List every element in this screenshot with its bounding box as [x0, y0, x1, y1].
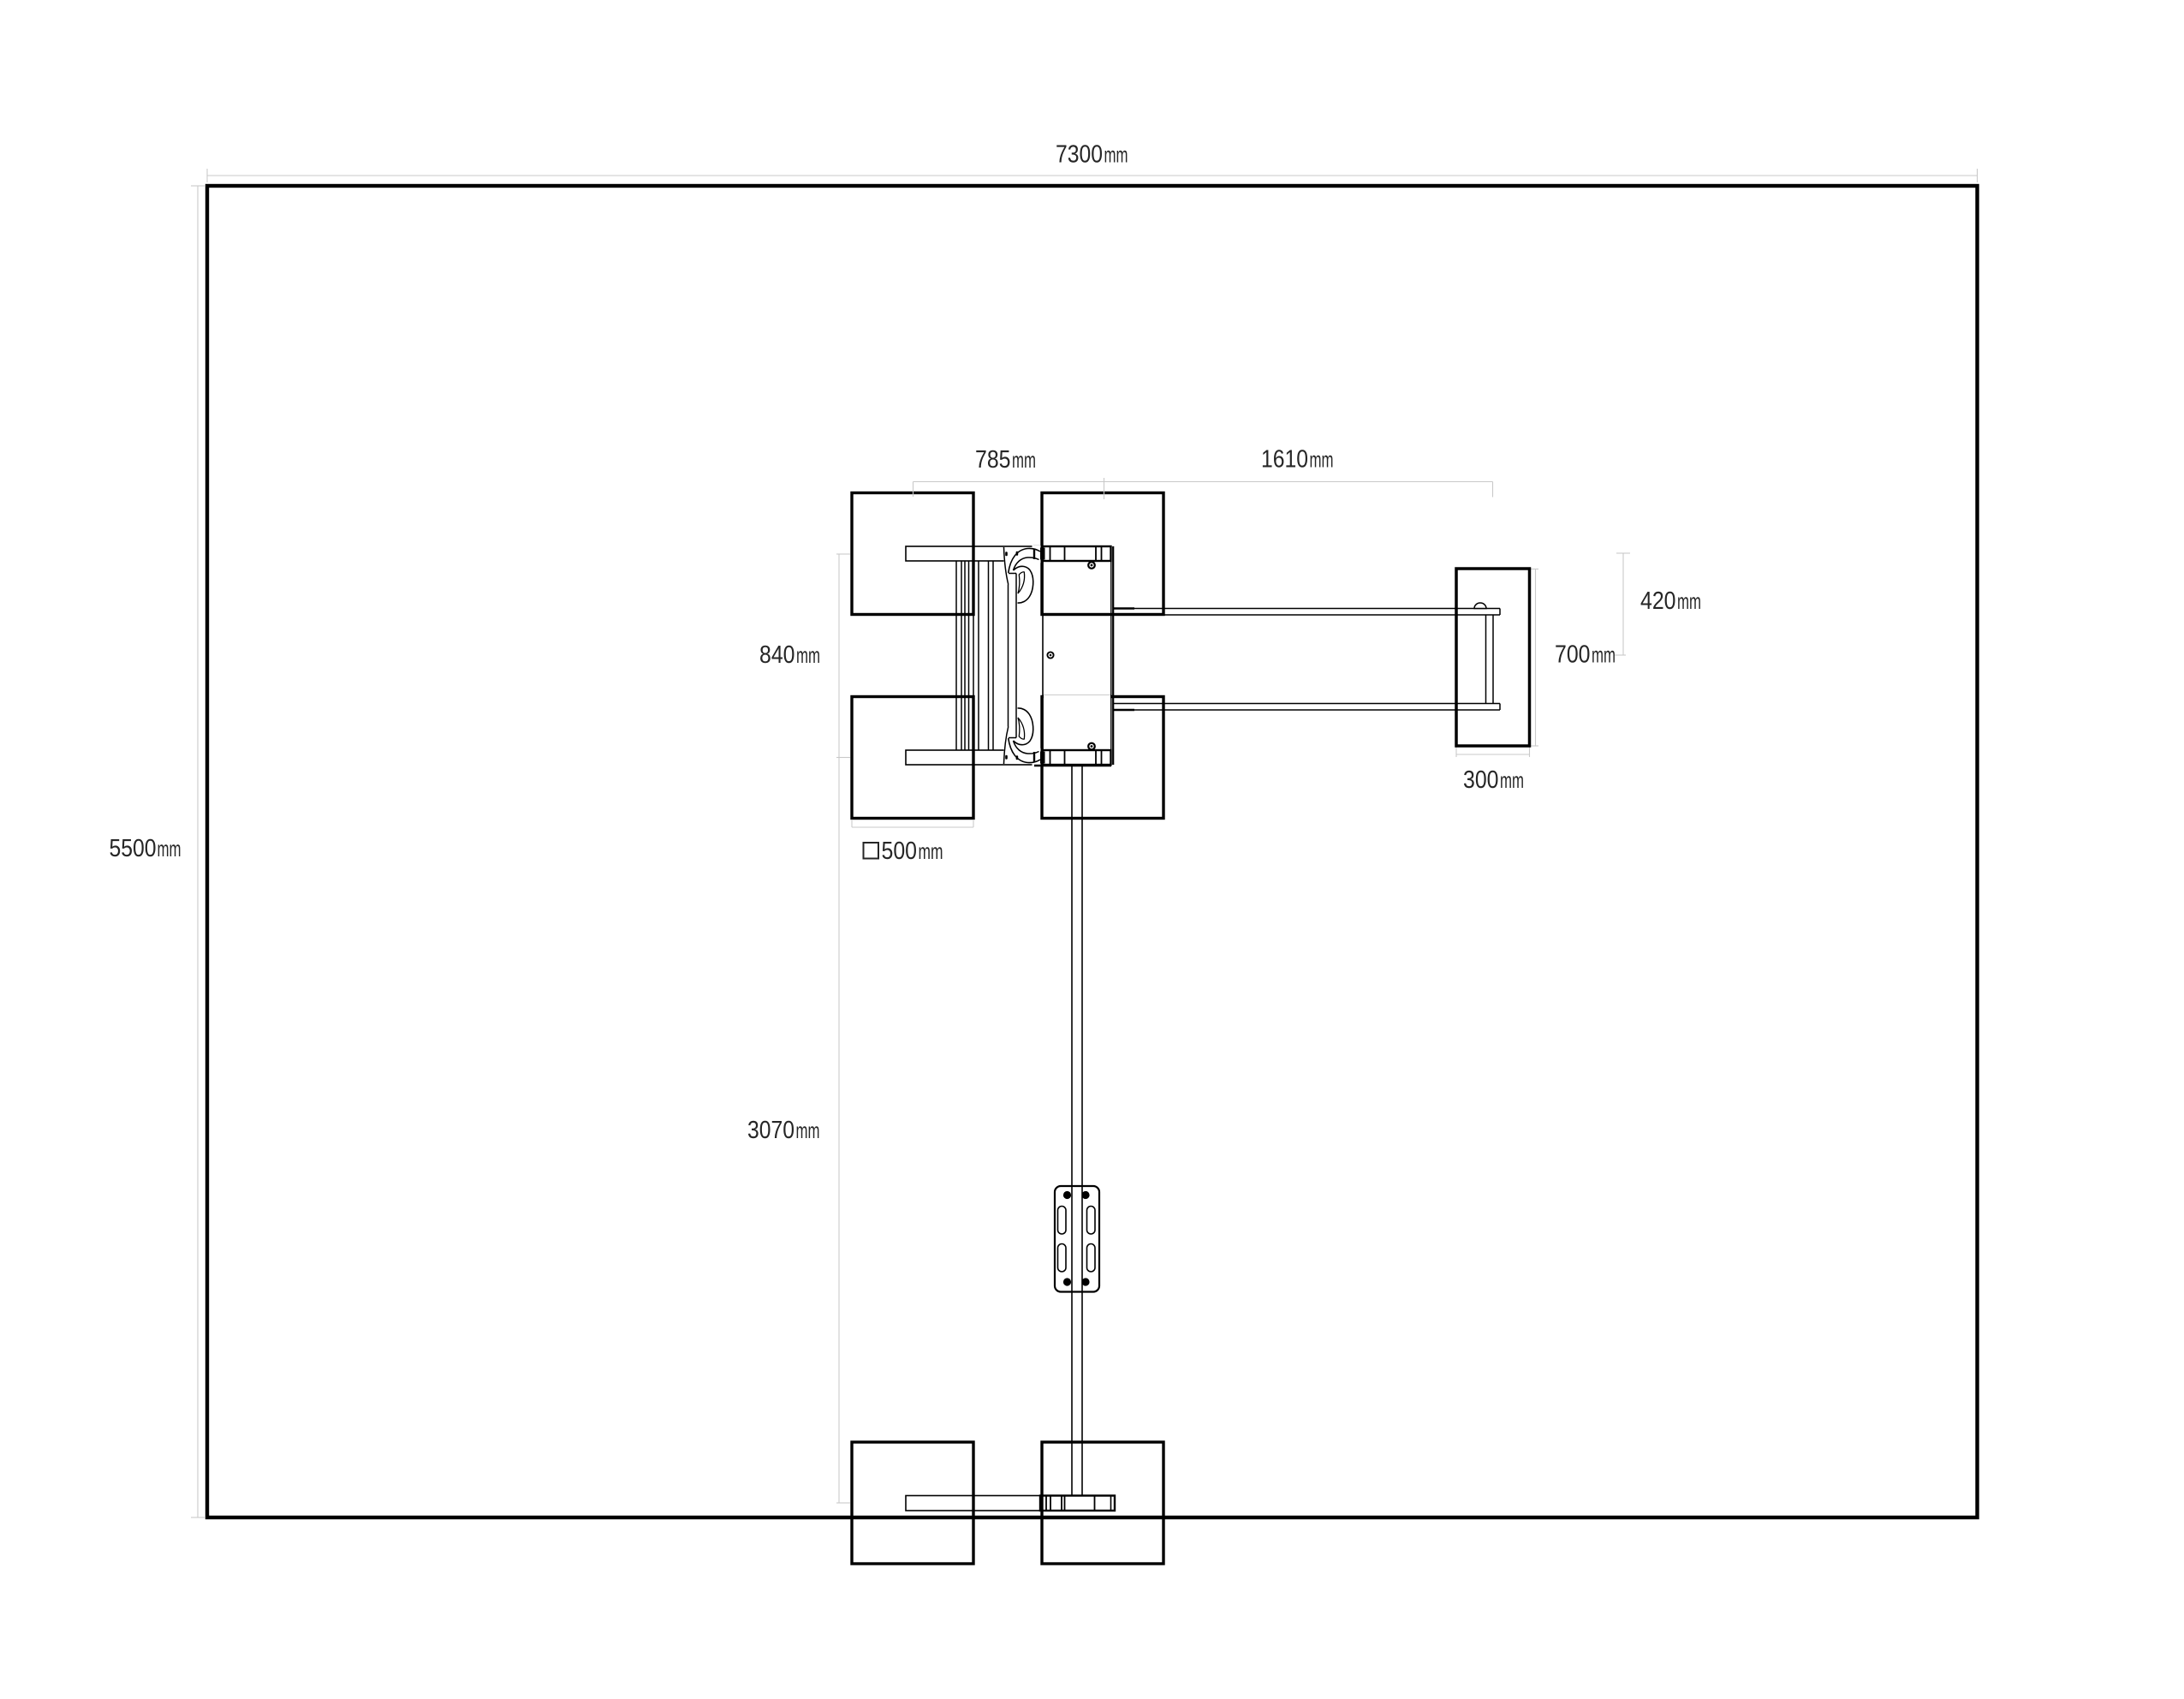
mid clamp plate — [1055, 1186, 1099, 1292]
svg-text:mm: mm — [158, 836, 182, 861]
svg-text:785: 785 — [975, 446, 1011, 474]
clamp block bottom (black) — [1040, 752, 1045, 764]
svg-text:mm: mm — [796, 1118, 820, 1143]
svg-text:mm: mm — [1104, 142, 1128, 168]
svg-text:700: 700 — [1555, 641, 1591, 669]
swing link bar — [1009, 574, 1017, 738]
svg-text:840: 840 — [759, 641, 795, 669]
room boundary 7300x5500 — [207, 186, 1978, 1517]
svg-text:mm: mm — [796, 642, 820, 668]
svg-text:3070: 3070 — [747, 1117, 794, 1144]
fork tip connector — [1486, 615, 1494, 704]
fork arm lower — [1113, 704, 1501, 711]
svg-text:mm: mm — [1592, 642, 1616, 668]
bottom crossbar — [906, 1496, 1115, 1511]
suction pad square bottom-left 500mm — [852, 1442, 973, 1564]
dimension line 420mm (far right) — [1616, 553, 1630, 655]
label 5500mm — [110, 835, 182, 862]
dimension line 840mm / 3070mm (left of machine) — [836, 554, 850, 1503]
suction pad square top-right 500mm — [1042, 493, 1163, 615]
label square-500mm — [864, 838, 943, 865]
svg-text:mm: mm — [1500, 767, 1524, 793]
suction pad square bottom-right 500mm — [1042, 1442, 1163, 1564]
label 3070mm — [747, 1117, 820, 1144]
label 300mm — [1463, 766, 1524, 794]
svg-text:mm: mm — [919, 838, 943, 864]
svg-text:5500: 5500 — [110, 835, 157, 862]
machine body plate edges — [1034, 546, 1113, 766]
dimension line 300mm (below pad plate) — [1456, 747, 1530, 757]
telescopic rail lines — [956, 561, 993, 750]
label 420mm — [1640, 587, 1701, 615]
crossbeam bottom (frame lower rail) — [906, 750, 1111, 765]
suction pad square top-left 500mm — [852, 493, 973, 615]
screw bottom — [1088, 743, 1095, 750]
svg-text:500: 500 — [882, 838, 918, 865]
dimension line 7300mm (top) — [207, 169, 1978, 182]
label 700mm — [1555, 641, 1616, 669]
svg-text:mm: mm — [1677, 588, 1701, 614]
svg-text:mm: mm — [1012, 447, 1036, 473]
dimension bracket 500mm (below mid-left square) — [852, 820, 973, 827]
suction pad square mid-left 500mm — [852, 697, 973, 819]
dimension line 700mm (right of pad plate) — [1530, 569, 1626, 747]
hose hook top — [1004, 545, 1041, 603]
dimension line 785mm / 1610mm (above machine) — [913, 478, 1493, 499]
label 785mm — [975, 446, 1036, 474]
svg-text:1610: 1610 — [1261, 446, 1308, 474]
svg-text:7300: 7300 — [1056, 141, 1103, 169]
mast pole — [1072, 765, 1082, 1496]
crossbeam top (frame upper rail) — [906, 546, 1111, 561]
label 840mm — [759, 641, 820, 669]
fork arm upper — [1113, 609, 1501, 616]
screw top — [1088, 562, 1095, 569]
svg-text:420: 420 — [1640, 587, 1676, 615]
clamp block top (black) — [1040, 548, 1045, 560]
suction pad square mid-right 500mm — [1042, 697, 1163, 819]
hose hook bottom — [1004, 708, 1041, 766]
machine body plate lower pocket — [1044, 695, 1110, 748]
stop knob on upper fork — [1474, 603, 1486, 609]
svg-text:300: 300 — [1463, 766, 1499, 794]
screw center — [1047, 652, 1053, 658]
svg-text:mm: mm — [1310, 447, 1334, 473]
label 1610mm — [1261, 446, 1334, 474]
dimension line 5500mm (left) — [191, 186, 205, 1517]
mid clamp bolts — [1063, 1191, 1090, 1286]
label 7300mm — [1056, 141, 1128, 169]
pad plate 700x300 — [1456, 569, 1530, 746]
